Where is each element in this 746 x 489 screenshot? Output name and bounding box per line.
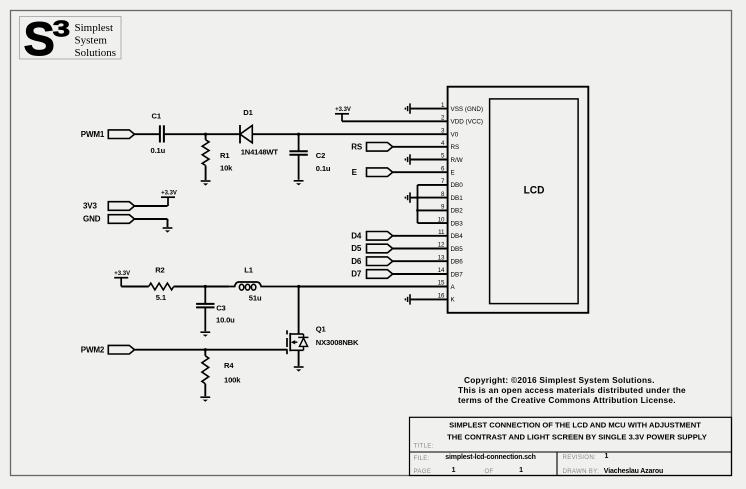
diode D1	[240, 125, 252, 143]
svg-text:NX3008NBK: NX3008NBK	[316, 338, 359, 347]
svg-text:D7: D7	[351, 270, 362, 279]
svg-text:Solutions: Solutions	[75, 47, 117, 59]
wire pin 12 DB5	[393, 248, 448, 250]
svg-text:Simplest: Simplest	[75, 22, 114, 34]
wire pin 10 DB3	[418, 222, 448, 224]
svg-text:C2: C2	[316, 151, 325, 160]
ground below R1	[201, 181, 211, 186]
+3.3V power at R2	[114, 271, 130, 287]
svg-text:E: E	[352, 168, 358, 177]
svg-text:DB6: DB6	[451, 259, 464, 266]
pin 16 K	[438, 293, 456, 304]
svg-text:0.1u: 0.1u	[316, 164, 331, 173]
svg-text:1: 1	[519, 467, 523, 474]
+3.3V power at 3V3	[161, 190, 177, 206]
connector E	[367, 168, 393, 177]
svg-text:D5: D5	[351, 244, 362, 253]
connector PWM2	[108, 345, 134, 354]
svg-text:This is an open access materia: This is an open access materials distrib…	[458, 385, 686, 395]
connector D6	[367, 257, 393, 266]
junction bus pin 8	[416, 196, 419, 199]
pin 6 E	[441, 165, 455, 176]
svg-text:PWM1: PWM1	[81, 130, 105, 139]
svg-text:E: E	[451, 170, 455, 177]
wire pin 5	[410, 159, 448, 161]
wire pin 13 DB6	[393, 260, 448, 262]
wire to R1	[205, 134, 207, 140]
svg-text:RS: RS	[351, 142, 363, 151]
svg-text:D4: D4	[351, 231, 362, 240]
ground below R4	[200, 397, 210, 402]
resistor R1	[202, 140, 209, 166]
pin 4 RS	[441, 140, 459, 151]
wire pin 6 E	[393, 171, 448, 173]
capacitor C2	[289, 134, 307, 180]
wire pin 7 DB0	[418, 184, 448, 186]
svg-text:10.0u: 10.0u	[216, 316, 235, 325]
svg-text:1: 1	[452, 467, 456, 474]
svg-text:1N4148WT: 1N4148WT	[241, 148, 279, 157]
svg-text:0.1u: 0.1u	[151, 146, 166, 155]
svg-text:V0: V0	[451, 132, 459, 139]
ground at GND connector	[163, 228, 173, 233]
svg-text:Q1: Q1	[316, 325, 327, 334]
ground at pin 5 R/W	[405, 154, 410, 164]
wire down to ground	[167, 219, 169, 227]
bus DB0-DB3 vertical	[417, 185, 419, 223]
pin 7 DB0	[441, 178, 463, 189]
junction C2 top	[297, 133, 300, 136]
capacitor C1	[160, 125, 164, 142]
svg-text:R4: R4	[224, 361, 234, 370]
wire pin 4 RS	[393, 146, 448, 148]
svg-text:DB5: DB5	[451, 246, 464, 253]
wire pin 9 DB2	[418, 209, 448, 211]
svg-text:System: System	[75, 34, 108, 46]
wire 3V3 to +3.3V	[134, 205, 167, 207]
ground at DB0-DB3 bus	[405, 192, 410, 202]
svg-text:DB3: DB3	[451, 220, 464, 227]
svg-text:FILE:: FILE:	[414, 455, 430, 462]
svg-text:3: 3	[441, 127, 445, 134]
svg-text:DB2: DB2	[451, 208, 464, 215]
title text	[447, 420, 707, 441]
pin 11 DB4	[438, 229, 463, 240]
svg-text:10k: 10k	[220, 164, 233, 173]
pin 9 DB2	[441, 204, 463, 215]
wire pin 11 DB4	[393, 235, 448, 237]
svg-text:R1: R1	[220, 151, 230, 160]
svg-text:RS: RS	[451, 144, 460, 151]
junction C3 top	[204, 285, 207, 288]
svg-text:+3.3V: +3.3V	[114, 271, 130, 277]
inductor L1	[229, 282, 298, 290]
svg-text:LCD: LCD	[524, 184, 545, 196]
junction Q1 drain	[297, 285, 300, 288]
pin 15 A	[438, 280, 456, 291]
svg-text:THE CONTRAST AND LIGHT SCREEN: THE CONTRAST AND LIGHT SCREEN BY SINGLE …	[447, 432, 707, 441]
ground below Q1 source	[294, 367, 304, 372]
svg-text:D6: D6	[351, 257, 362, 266]
pin 1 VSS (GND)	[441, 102, 483, 113]
svg-text:Viacheslau Azarou: Viacheslau Azarou	[604, 468, 663, 475]
capacitor C3	[196, 287, 214, 332]
svg-text:C1: C1	[152, 112, 162, 121]
svg-text:REVISION:: REVISION:	[563, 454, 597, 461]
svg-text:SIMPLEST CONNECTION OF THE LCD: SIMPLEST CONNECTION OF THE LCD AND MCU W…	[449, 420, 701, 429]
pin 3 V0	[441, 127, 459, 138]
wire pin 16	[410, 298, 448, 300]
wire R4 to ground	[204, 384, 206, 397]
junction bus pin 9	[416, 209, 419, 212]
wire to R4	[204, 350, 206, 356]
wire D1 to LCD V0 pin 3	[252, 133, 447, 135]
svg-text:DB4: DB4	[451, 233, 464, 240]
wire +3.3V to R2	[121, 286, 149, 288]
ground below C2	[294, 181, 304, 186]
svg-text:TITLE:: TITLE:	[414, 443, 434, 450]
pin 14 DB7	[438, 267, 464, 278]
copyright text block	[458, 375, 686, 405]
svg-text:VSS (GND): VSS (GND)	[451, 106, 484, 113]
svg-text:OF: OF	[484, 468, 493, 475]
svg-text:L1: L1	[244, 266, 253, 275]
connector D4	[367, 232, 393, 241]
transistor Q1 NX3008NBK MOSFET	[287, 287, 308, 367]
wire pin 1	[410, 108, 448, 110]
ground at pin 16 K	[405, 294, 410, 304]
svg-text:DRAWN BY:: DRAWN BY:	[563, 468, 600, 475]
wire pin 14 DB7	[393, 273, 448, 275]
+3.3V power at VDD pin 2	[335, 107, 351, 121]
connector D7	[367, 270, 393, 279]
svg-text:DB1: DB1	[451, 195, 464, 202]
wire C1 to D1	[165, 133, 240, 135]
svg-text:+3.3V: +3.3V	[335, 107, 351, 113]
ground below C3	[200, 332, 210, 337]
svg-text:S: S	[24, 12, 55, 65]
logo box S3 Simplest System Solutions	[20, 12, 122, 65]
title block divider horizontal	[410, 451, 732, 453]
svg-text:3V3: 3V3	[83, 202, 97, 211]
wire bus ground	[410, 197, 418, 199]
pin 5 R/W	[441, 153, 463, 164]
wire R2 to L1	[174, 286, 230, 288]
svg-text:DB0: DB0	[451, 182, 464, 189]
connector D5	[367, 244, 393, 253]
wire R1 to ground	[205, 166, 207, 181]
resistor R2	[149, 283, 174, 290]
junction R4 top	[204, 348, 207, 351]
junction R1 top	[204, 133, 207, 136]
svg-text:Copyright: ©2016 Simplest Syst: Copyright: ©2016 Simplest System Solutio…	[464, 375, 655, 385]
wire PWM2 to Q1 gate	[134, 349, 287, 351]
ground at pin 1 VSS	[405, 103, 410, 113]
wire GND to ground	[134, 218, 167, 220]
connector PWM1	[108, 130, 134, 139]
title block divider vertical	[556, 452, 558, 476]
svg-text:3: 3	[53, 15, 71, 41]
svg-text:GND: GND	[83, 215, 101, 224]
connector 3V3	[108, 202, 134, 211]
svg-text:terms of the Creative Commons: terms of the Creative Commons Attributio…	[458, 395, 676, 405]
wire L1 to LCD pin 15 A	[299, 286, 448, 288]
IC U1 LCD module box	[448, 87, 589, 313]
svg-text:+3.3V: +3.3V	[161, 190, 177, 196]
wire pin 8 DB1	[418, 197, 448, 199]
svg-text:VDD (VCC): VDD (VCC)	[451, 119, 484, 126]
title block frame	[410, 417, 732, 475]
svg-text:D1: D1	[243, 108, 253, 117]
pin 12 DB5	[438, 242, 464, 253]
svg-text:R/W: R/W	[451, 157, 463, 164]
svg-text:simplest-lcd-connection.sch: simplest-lcd-connection.sch	[445, 454, 535, 461]
LCD screen inner rectangle	[490, 99, 578, 304]
pin 8 DB1	[441, 191, 463, 202]
wire PWM1 to C1	[134, 133, 159, 135]
pin 13 DB6	[438, 254, 464, 265]
wire pin 2	[342, 120, 448, 122]
connector GND	[108, 215, 134, 224]
svg-text:C3: C3	[216, 304, 225, 313]
svg-text:100k: 100k	[224, 376, 241, 385]
svg-text:PWM2: PWM2	[81, 345, 105, 354]
pin 10 DB3	[438, 216, 464, 227]
svg-text:5.1: 5.1	[156, 293, 167, 302]
connector RS	[367, 143, 393, 152]
pin 2 VDD (VCC)	[441, 115, 483, 126]
svg-text:DB7: DB7	[451, 271, 464, 278]
svg-text:PAGE: PAGE	[414, 468, 432, 475]
svg-text:51u: 51u	[249, 293, 262, 302]
resistor R4	[202, 356, 209, 384]
svg-text:R2: R2	[155, 266, 164, 275]
svg-text:1: 1	[605, 453, 609, 460]
